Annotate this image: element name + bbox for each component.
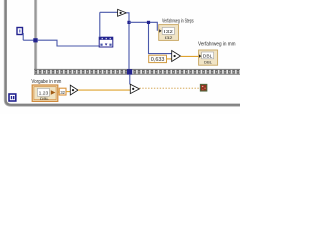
svg-text:Verfahrweg in mm: Verfahrweg in mm	[198, 41, 236, 47]
wire to sequence tunnel	[23, 39, 34, 41]
loop iteration terminal i	[9, 94, 16, 101]
wire down to multiply input	[149, 24, 172, 54]
wire to indicator Verfahrweg in Steps	[129, 22, 157, 31]
svg-text:Vorgabe in mm: Vorgabe in mm	[31, 79, 61, 85]
svg-text:32: 32	[60, 90, 65, 95]
conversion triangle U1 (top)	[118, 9, 127, 16]
multiply function U2	[172, 51, 181, 62]
junction J2	[147, 21, 150, 24]
wire tunnel down to multiply triangle	[129, 75, 131, 85]
wire up from node box	[99, 12, 101, 37]
svg-text:1.23: 1.23	[39, 90, 49, 95]
wire to second triangle	[78, 89, 130, 91]
wire from triangle output down	[126, 13, 129, 69]
indicator I2 Verfahrweg in mm	[199, 50, 218, 65]
numeric constant 0,633	[149, 55, 167, 63]
svg-text:I32: I32	[165, 36, 173, 40]
conversion triangle U3 (bottom-left)	[70, 85, 78, 95]
tunnel on sequence left border	[33, 38, 37, 42]
wire conversion box to triangle	[66, 91, 70, 93]
wire multiply to indicator	[181, 55, 199, 57]
svg-text:DBL: DBL	[203, 53, 213, 58]
while loop border	[4, 0, 240, 106]
sequence structure bottom border (filmstrip)	[34, 69, 240, 75]
indicator I1 Verfahrweg in Steps	[159, 25, 179, 41]
wire to triangle function	[100, 11, 118, 13]
terminal T1 (small blue terminal upper-left)	[17, 28, 23, 35]
conversion box 32	[59, 88, 66, 95]
node icon (bottom right small VI)	[200, 84, 206, 91]
node box B2 (sub-VI node)	[99, 37, 113, 47]
svg-text:DBL: DBL	[40, 97, 49, 101]
wire right of tunnel	[38, 40, 101, 46]
wire from terminal down	[22, 33, 24, 40]
control C1 Vorgabe in mm	[32, 85, 58, 101]
wire constant to multiply	[167, 58, 172, 60]
svg-text:DBL: DBL	[204, 60, 212, 64]
svg-text:I32: I32	[164, 29, 174, 34]
wire control to conversion box	[58, 91, 59, 93]
svg-text:Verfahrweg in Steps: Verfahrweg in Steps	[162, 19, 194, 25]
svg-text:0,633: 0,633	[151, 57, 165, 63]
junction J1	[127, 21, 130, 24]
dashed wire to node icon	[139, 87, 200, 89]
multiply triangle U4 (bottom-right)	[130, 84, 139, 93]
tunnel on filmstrip border	[127, 69, 132, 74]
sequence structure left border	[34, 0, 37, 70]
